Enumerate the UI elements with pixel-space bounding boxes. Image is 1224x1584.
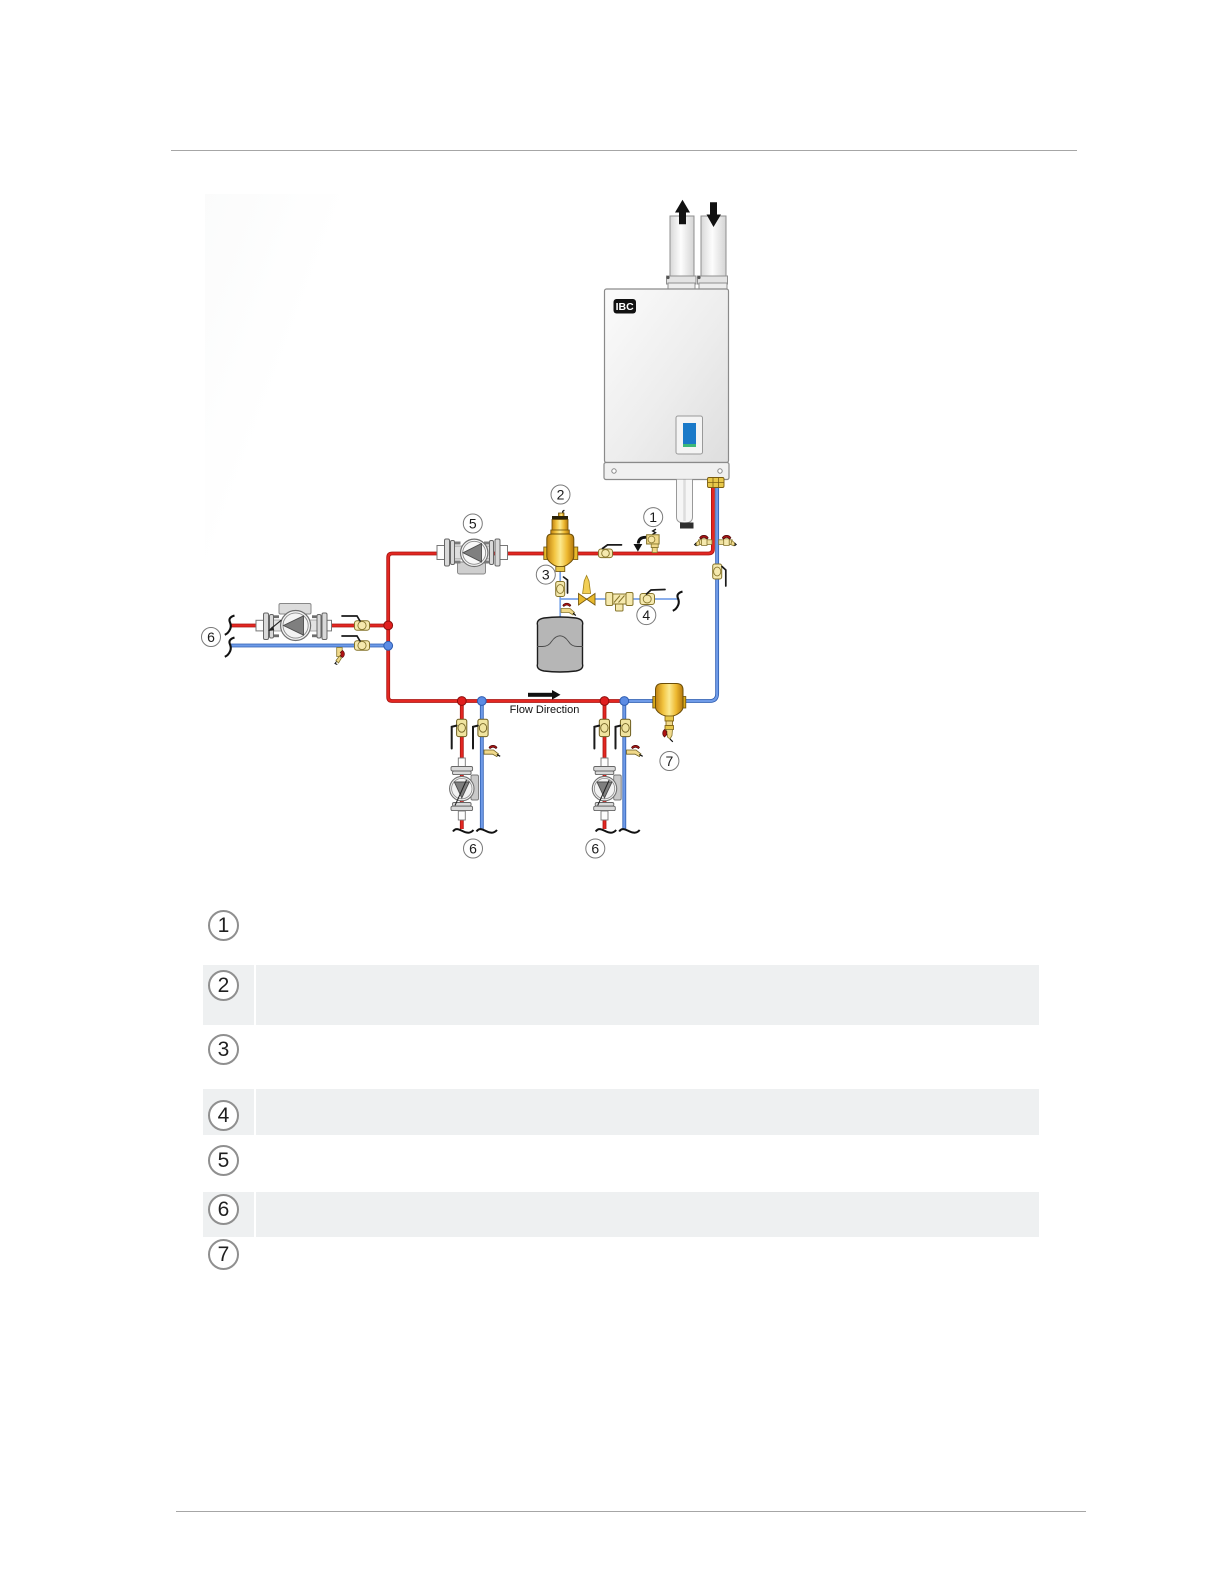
svg-text:6: 6 bbox=[591, 841, 599, 857]
svg-text:Flow Direction: Flow Direction bbox=[510, 704, 580, 716]
svg-text:5: 5 bbox=[469, 516, 477, 532]
svg-text:6: 6 bbox=[207, 629, 215, 645]
svg-text:3: 3 bbox=[542, 567, 550, 583]
svg-text:7: 7 bbox=[666, 753, 674, 769]
svg-text:4: 4 bbox=[642, 607, 650, 623]
svg-text:2: 2 bbox=[557, 487, 565, 503]
svg-text:6: 6 bbox=[469, 841, 477, 857]
svg-text:1: 1 bbox=[649, 509, 657, 525]
svg-text:IBC: IBC bbox=[616, 301, 635, 313]
